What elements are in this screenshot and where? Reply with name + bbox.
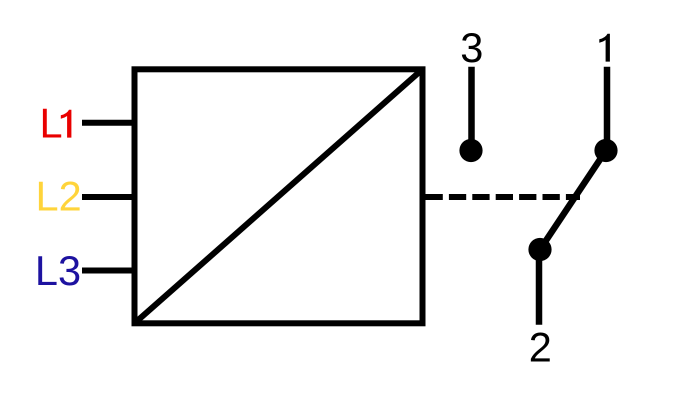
switch arm from terminal 2 to terminal 1 <box>540 151 606 250</box>
dashed actuation link from box to switch arm <box>426 194 581 200</box>
wire terminal 2 <box>536 251 543 325</box>
pin label 1 <box>599 34 610 62</box>
monitoring relay box U1 <box>135 69 423 323</box>
wire L3 to box <box>82 268 134 274</box>
wire terminal 1 <box>604 67 611 148</box>
diagonal line of box U1 <box>135 69 423 323</box>
svg-text:L3: L3 <box>35 247 81 294</box>
svg-text:L: L <box>40 100 63 147</box>
contact circle terminal 3 <box>459 139 482 162</box>
wire L1 to box <box>82 120 134 126</box>
svg-text:2: 2 <box>529 323 552 370</box>
contact circle terminal 2 <box>528 238 551 261</box>
wire L2 to box <box>82 194 134 200</box>
svg-text:L2: L2 <box>36 173 82 220</box>
wire terminal 3 <box>468 67 475 148</box>
contact circle terminal 1 <box>594 139 617 162</box>
svg-text:3: 3 <box>460 24 483 71</box>
